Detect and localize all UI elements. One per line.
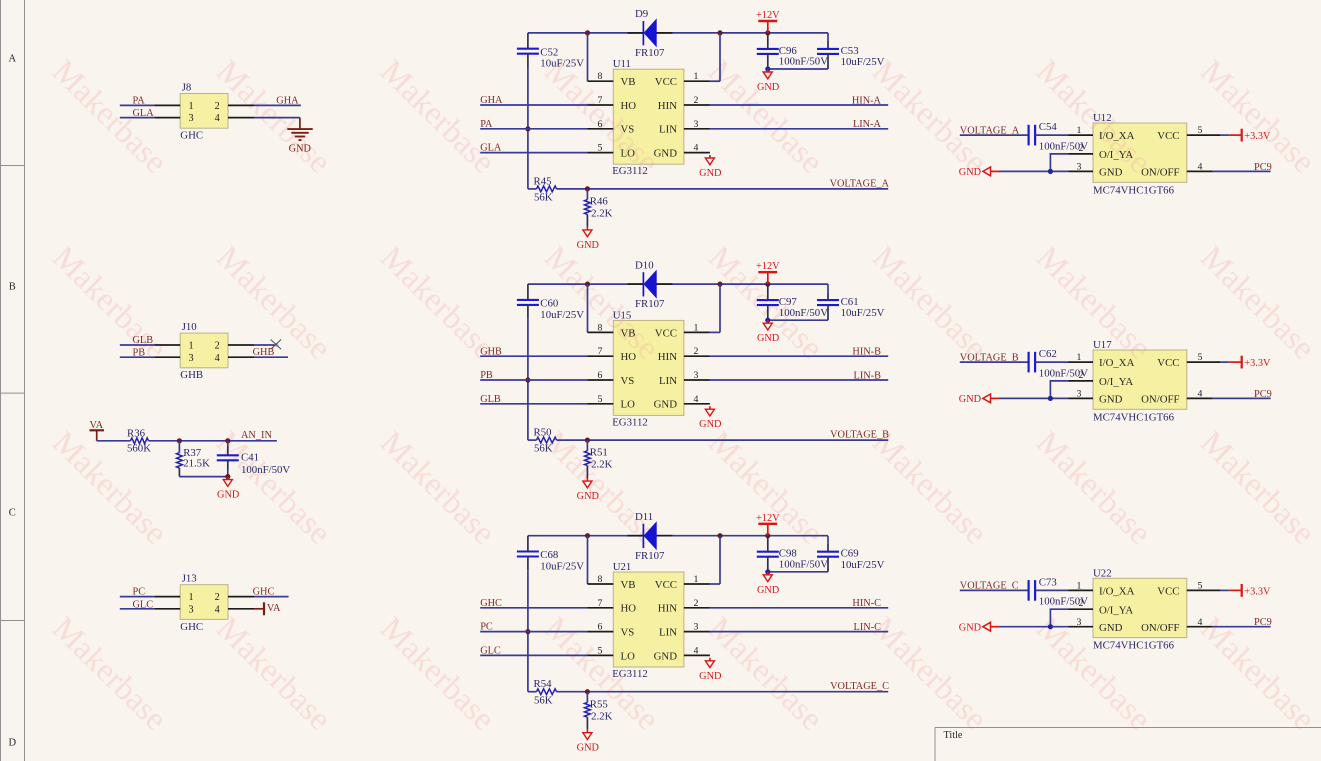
svg-text:100nF/50V: 100nF/50V <box>779 56 828 68</box>
svg-text:VCC: VCC <box>655 76 677 88</box>
svg-text:LIN-C: LIN-C <box>854 622 882 633</box>
wire pin4 to earth <box>254 117 300 119</box>
wire VOLTAGE_B net <box>557 439 889 441</box>
pin 8 VB <box>588 583 614 585</box>
IC body U17 <box>1093 350 1187 409</box>
svg-text:1: 1 <box>1076 125 1081 136</box>
wire C-right drop <box>827 536 829 544</box>
node R37 junction <box>177 438 182 443</box>
ground pin4 <box>709 155 711 158</box>
wire C68 bottom lead down to divider <box>527 557 529 571</box>
wire C97 top lead <box>767 284 769 300</box>
svg-text:10uF/25V: 10uF/25V <box>841 559 885 571</box>
svg-text:C62: C62 <box>1039 348 1057 360</box>
svg-text:5: 5 <box>598 394 603 405</box>
svg-text:VOLTAGE_C: VOLTAGE_C <box>830 681 889 692</box>
svg-text:VOLTAGE_C: VOLTAGE_C <box>960 581 1019 592</box>
wire GND net <box>999 626 1069 628</box>
wire GLA net <box>120 117 154 119</box>
svg-text:GND: GND <box>757 333 780 344</box>
wire C-right drop <box>827 33 829 41</box>
svg-text:GND: GND <box>757 82 780 93</box>
pin 4 ON/OFF <box>1187 397 1213 399</box>
pin 2 HIN <box>684 104 710 106</box>
wire GLC net <box>480 654 587 656</box>
node VB junction <box>585 533 590 538</box>
svg-text:VB: VB <box>621 327 636 339</box>
diode D9 <box>628 32 644 34</box>
wire VOLTAGE_C net <box>557 691 889 693</box>
svg-text:FR107: FR107 <box>635 550 665 562</box>
svg-text:HIN: HIN <box>658 603 677 615</box>
wire VOLTAGE_A net <box>960 134 1029 136</box>
resistor R51 <box>586 440 588 451</box>
wire GLA net <box>480 152 587 154</box>
svg-text:GND: GND <box>654 650 678 662</box>
pin 5 VCC <box>1187 134 1221 136</box>
node pin2-3 junction <box>1048 624 1053 629</box>
svg-text:2: 2 <box>694 598 699 609</box>
svg-text:J8: J8 <box>182 81 192 93</box>
svg-text:4: 4 <box>694 143 699 154</box>
svg-text:EG3112: EG3112 <box>612 416 648 428</box>
svg-text:HIN: HIN <box>658 100 677 112</box>
svg-text:O/I_YA: O/I_YA <box>1099 376 1133 388</box>
svg-text:D11: D11 <box>635 511 653 523</box>
capacitor C69 <box>817 551 839 553</box>
svg-text:C: C <box>9 508 16 519</box>
svg-text:1: 1 <box>1076 581 1081 592</box>
power port +3.3V <box>1220 134 1229 136</box>
pin 3 GND <box>1069 626 1094 628</box>
svg-text:5: 5 <box>598 143 603 154</box>
svg-text:4: 4 <box>215 604 220 615</box>
svg-text:LIN: LIN <box>659 375 677 387</box>
svg-text:4: 4 <box>1198 162 1203 173</box>
svg-text:GLC: GLC <box>133 599 154 610</box>
svg-text:7: 7 <box>598 346 603 357</box>
wire AN_IN net <box>149 440 277 442</box>
wire C-right drop <box>827 284 829 292</box>
svg-text:LIN-A: LIN-A <box>853 119 882 130</box>
svg-text:MC74VHC1GT66: MC74VHC1GT66 <box>1093 411 1175 423</box>
svg-text:LIN-B: LIN-B <box>854 370 882 381</box>
svg-text:GND: GND <box>959 394 982 405</box>
wire GND net <box>999 170 1069 172</box>
wire GHB net <box>480 355 587 357</box>
ground <box>586 730 588 733</box>
svg-text:PB: PB <box>133 348 146 359</box>
svg-text:GND: GND <box>699 671 722 682</box>
svg-text:4: 4 <box>694 394 699 405</box>
svg-text:HIN: HIN <box>658 351 677 363</box>
svg-text:GHA: GHA <box>480 95 503 106</box>
IC body U12 <box>1093 123 1187 182</box>
ground <box>586 227 588 230</box>
pin 1 I/O_XA <box>1069 589 1094 591</box>
wire cap bottoms <box>768 68 828 70</box>
zone divider 2 <box>1 392 25 394</box>
pin 3 <box>154 608 180 610</box>
capacitor C96 <box>757 48 779 50</box>
earth ground <box>299 118 301 130</box>
svg-text:7: 7 <box>598 95 603 106</box>
pin 3 GND <box>1069 397 1094 399</box>
svg-text:PC: PC <box>480 622 493 633</box>
capacitor C98 <box>757 551 779 553</box>
pin 2 HIN <box>684 355 710 357</box>
node VB junction <box>585 30 590 35</box>
pin 3 <box>154 356 180 358</box>
pin 3 GND <box>1069 170 1094 172</box>
wire LIN-B net <box>710 379 888 381</box>
svg-text:5: 5 <box>598 645 603 656</box>
svg-text:56K: 56K <box>534 443 553 455</box>
svg-text:3: 3 <box>1076 617 1081 628</box>
svg-text:J13: J13 <box>182 573 197 585</box>
svg-text:+3.3V: +3.3V <box>1244 358 1271 369</box>
wire top rail D11 net <box>528 535 644 537</box>
svg-text:PC9: PC9 <box>1254 162 1272 173</box>
svg-text:21.5K: 21.5K <box>183 457 210 469</box>
pin 3 LIN <box>684 379 710 381</box>
svg-text:3: 3 <box>694 622 699 633</box>
wire C53 bottom lead <box>827 54 829 69</box>
svg-text:2: 2 <box>215 592 220 603</box>
wire C61 bottom lead <box>827 305 829 320</box>
wire PA net <box>120 104 154 106</box>
node VB junction <box>585 282 590 287</box>
svg-text:2: 2 <box>215 101 220 112</box>
svg-text:VCC: VCC <box>655 327 677 339</box>
wire cap bottoms <box>768 571 828 573</box>
svg-text:4: 4 <box>215 113 220 124</box>
svg-text:560K: 560K <box>127 442 151 454</box>
svg-text:PC9: PC9 <box>1254 389 1272 400</box>
svg-text:U12: U12 <box>1093 112 1112 124</box>
svg-text:10uF/25V: 10uF/25V <box>540 309 584 321</box>
svg-text:MC74VHC1GT66: MC74VHC1GT66 <box>1093 184 1175 196</box>
svg-text:AN_IN: AN_IN <box>241 430 272 441</box>
svg-text:GLB: GLB <box>133 335 154 346</box>
capacitor C60 <box>517 299 539 301</box>
svg-text:VCC: VCC <box>1157 357 1179 369</box>
pin 2 <box>228 104 254 106</box>
wire PC net <box>480 631 587 633</box>
svg-text:HIN-A: HIN-A <box>852 95 882 106</box>
node divider junction <box>585 438 590 443</box>
pin 4 <box>228 356 254 358</box>
pin 7 HO <box>588 104 614 106</box>
svg-text:6: 6 <box>598 622 603 633</box>
svg-text:VOLTAGE_A: VOLTAGE_A <box>830 178 890 189</box>
svg-text:VS: VS <box>621 375 635 387</box>
wire C54 to pin1 <box>1035 134 1068 136</box>
svg-text:56K: 56K <box>534 694 553 706</box>
svg-text:GHA: GHA <box>276 95 299 106</box>
power port GND <box>983 622 991 631</box>
pin 4 ON/OFF <box>1187 626 1213 628</box>
pin 2 O/I_YA <box>1069 608 1094 610</box>
svg-text:LO: LO <box>621 650 636 662</box>
pin 3 LIN <box>684 631 710 633</box>
svg-text:I/O_XA: I/O_XA <box>1099 357 1135 369</box>
capacitor C41 leads <box>227 441 229 446</box>
power port VA <box>90 429 105 431</box>
svg-text:GHC: GHC <box>480 598 502 609</box>
node C41 junction <box>225 438 230 443</box>
svg-text:U11: U11 <box>613 58 631 70</box>
diode D11 <box>628 535 644 537</box>
title block <box>935 727 1321 729</box>
svg-text:+3.3V: +3.3V <box>1244 131 1271 142</box>
svg-text:GLB: GLB <box>480 394 501 405</box>
ground <box>767 320 769 323</box>
wire GHC net <box>254 596 289 598</box>
node cap gnd junction <box>765 569 770 574</box>
resistor R46 <box>586 189 588 200</box>
svg-text:R45: R45 <box>534 175 552 187</box>
IC body U15 <box>613 320 684 415</box>
node pin2-3 junction <box>1048 169 1053 174</box>
svg-text:GHC: GHC <box>180 621 203 633</box>
wire GHB net <box>254 356 288 358</box>
svg-text:EG3112: EG3112 <box>612 165 648 177</box>
power port +12V <box>758 523 777 525</box>
wire C52 bottom lead down to divider <box>527 54 529 68</box>
svg-text:GLA: GLA <box>133 108 155 119</box>
wire PA net <box>480 128 587 130</box>
IC body U11 <box>613 69 684 164</box>
svg-text:GLA: GLA <box>480 143 502 154</box>
connector body J10 <box>180 333 228 368</box>
svg-text:6: 6 <box>598 370 603 381</box>
node PB junction <box>525 377 530 382</box>
node pin2-3 junction <box>1048 396 1053 401</box>
wire PC net <box>120 596 154 598</box>
pin 4 <box>228 608 254 610</box>
svg-text:PA: PA <box>480 119 493 130</box>
power port GND <box>983 167 991 176</box>
svg-text:GHB: GHB <box>480 346 502 357</box>
wire top rail D9 net <box>528 32 644 34</box>
wire VB riser <box>587 33 589 81</box>
svg-text:+12V: +12V <box>756 513 780 524</box>
no-connect cross <box>271 340 281 350</box>
wire C96 bottom lead <box>767 54 769 69</box>
wire VCC riser <box>719 536 721 584</box>
svg-text:C61: C61 <box>841 296 859 308</box>
resistor R45 <box>528 188 537 190</box>
pin 4 <box>228 117 254 119</box>
wire C62 to pin1 <box>1035 361 1068 363</box>
svg-text:8: 8 <box>598 574 603 585</box>
svg-text:D: D <box>9 738 17 749</box>
svg-text:LO: LO <box>621 148 636 160</box>
pin 4 GND <box>684 403 710 405</box>
wire PC9 net <box>1213 170 1271 172</box>
svg-text:6: 6 <box>598 119 603 130</box>
svg-text:C53: C53 <box>841 45 859 57</box>
svg-text:HO: HO <box>621 603 637 615</box>
svg-text:100nF/50V: 100nF/50V <box>779 558 828 570</box>
node VCC junction <box>717 30 722 35</box>
wire C96 top lead <box>767 33 769 49</box>
svg-text:HO: HO <box>621 351 637 363</box>
node PA junction <box>525 126 530 131</box>
svg-text:2: 2 <box>1079 143 1084 154</box>
pin 2 HIN <box>684 607 710 609</box>
pin 5 LO <box>588 152 614 154</box>
resistor R36 <box>97 440 131 442</box>
wire top rail D10 net <box>528 283 644 285</box>
svg-text:GHB: GHB <box>253 347 275 358</box>
svg-text:VOLTAGE_A: VOLTAGE_A <box>960 125 1020 136</box>
svg-text:GHC: GHC <box>253 587 275 598</box>
wire pin2 loop <box>1050 609 1068 627</box>
svg-text:R55: R55 <box>590 698 608 710</box>
pin 2 O/I_YA <box>1069 153 1094 155</box>
svg-text:2.2K: 2.2K <box>591 208 612 220</box>
sheet border left strip <box>0 0 2 761</box>
ground <box>586 478 588 481</box>
diode D10 <box>628 283 644 285</box>
svg-text:C41: C41 <box>241 451 259 463</box>
svg-text:VA: VA <box>90 420 104 431</box>
svg-text:U22: U22 <box>1093 567 1112 579</box>
pin 2 O/I_YA <box>1069 380 1094 382</box>
svg-text:3: 3 <box>188 113 193 124</box>
pin 4 GND <box>684 152 710 154</box>
svg-text:VS: VS <box>621 627 635 639</box>
wire C98 bottom lead <box>767 557 769 572</box>
capacitor C97 <box>757 299 779 301</box>
svg-text:8: 8 <box>598 322 603 333</box>
ground <box>767 69 769 72</box>
capacitor C53 <box>817 48 839 50</box>
svg-text:1: 1 <box>1076 352 1081 363</box>
svg-text:4: 4 <box>1198 389 1203 400</box>
svg-text:HIN-B: HIN-B <box>852 347 881 358</box>
svg-text:VCC: VCC <box>1157 130 1179 142</box>
pin 5 VCC <box>1187 361 1221 363</box>
svg-text:3: 3 <box>188 604 193 615</box>
node cap gnd junction <box>765 66 770 71</box>
wire PC9 net <box>1213 626 1271 628</box>
node gnd junction <box>225 474 230 479</box>
wire C69 bottom lead <box>827 557 829 572</box>
wire PC9 net <box>1213 397 1271 399</box>
svg-text:C73: C73 <box>1039 577 1057 589</box>
ground pin4 <box>709 658 711 661</box>
svg-text:+12V: +12V <box>756 261 780 272</box>
wire C52 top lead <box>527 33 529 49</box>
svg-text:U21: U21 <box>613 561 632 573</box>
pin 1 <box>154 596 180 598</box>
wire PB net <box>480 379 587 381</box>
svg-text:R50: R50 <box>534 427 552 439</box>
svg-text:3: 3 <box>1076 389 1081 400</box>
pin 5 VCC <box>1187 589 1221 591</box>
svg-text:B: B <box>9 282 16 293</box>
pin 3 <box>154 117 180 119</box>
svg-text:100nF/50V: 100nF/50V <box>241 464 290 476</box>
wire GLB net <box>120 344 154 346</box>
svg-text:PA: PA <box>133 95 146 106</box>
ground <box>767 572 769 575</box>
capacitor C68 <box>517 550 539 552</box>
svg-text:VCC: VCC <box>655 579 677 591</box>
pin 1 I/O_XA <box>1069 134 1094 136</box>
svg-text:100nF/50V: 100nF/50V <box>779 307 828 319</box>
svg-text:GND: GND <box>577 240 600 251</box>
wire cap bottoms <box>768 319 828 321</box>
pin 1 VCC <box>684 80 710 82</box>
svg-text:GND: GND <box>959 167 982 178</box>
svg-text:GND: GND <box>699 168 722 179</box>
svg-text:GND: GND <box>1099 622 1123 634</box>
svg-text:O/I_YA: O/I_YA <box>1099 604 1133 616</box>
wire GLB net <box>480 403 587 405</box>
svg-text:R51: R51 <box>590 447 608 459</box>
svg-text:1: 1 <box>188 592 193 603</box>
svg-text:PB: PB <box>480 370 493 381</box>
ground <box>227 477 229 480</box>
svg-text:VCC: VCC <box>1157 586 1179 598</box>
wire VB riser <box>587 536 589 584</box>
svg-text:10uF/25V: 10uF/25V <box>841 307 885 319</box>
node +12V junction <box>765 282 770 287</box>
pin 2 <box>228 596 254 598</box>
svg-text:+3.3V: +3.3V <box>1244 586 1271 597</box>
wire GHA net <box>254 104 301 106</box>
svg-text:PC: PC <box>133 587 146 598</box>
wire VCC riser <box>719 33 721 81</box>
svg-text:3: 3 <box>694 370 699 381</box>
svg-text:FR107: FR107 <box>635 298 665 310</box>
svg-text:HIN-C: HIN-C <box>852 598 881 609</box>
wire LIN-A net <box>710 128 888 130</box>
svg-text:A: A <box>9 54 17 65</box>
power port +3.3V <box>1220 361 1229 363</box>
svg-text:ON/OFF: ON/OFF <box>1141 622 1179 634</box>
wire C73 to pin1 <box>1035 589 1068 591</box>
wire VOLTAGE_B net <box>960 361 1029 363</box>
pin 6 VS <box>588 128 614 130</box>
svg-text:I/O_XA: I/O_XA <box>1099 586 1135 598</box>
wire HIN-A net <box>710 104 888 106</box>
svg-text:4: 4 <box>694 645 699 656</box>
wire R37 to C41 bottom <box>179 476 227 478</box>
svg-text:LO: LO <box>621 399 636 411</box>
svg-text:VS: VS <box>621 124 635 136</box>
svg-text:I/O_XA: I/O_XA <box>1099 130 1135 142</box>
wire VB riser <box>587 284 589 332</box>
svg-text:2: 2 <box>694 346 699 357</box>
pin 8 VB <box>588 80 614 82</box>
svg-text:10uF/25V: 10uF/25V <box>540 560 584 572</box>
pin 4 GND <box>684 654 710 656</box>
svg-text:C52: C52 <box>540 46 558 58</box>
power port +12V <box>758 20 777 22</box>
svg-text:10uF/25V: 10uF/25V <box>841 56 885 68</box>
svg-text:1: 1 <box>694 574 699 585</box>
wire LIN-C net <box>710 631 888 633</box>
svg-text:GND: GND <box>699 419 722 430</box>
svg-text:GND: GND <box>217 490 240 501</box>
svg-text:FR107: FR107 <box>635 47 665 59</box>
svg-text:GHB: GHB <box>180 369 203 381</box>
